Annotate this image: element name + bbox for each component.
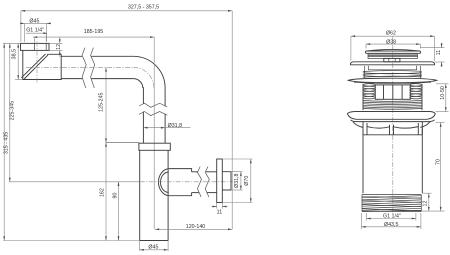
svg-text:38,5: 38,5 — [11, 49, 17, 59]
svg-text:10-50: 10-50 — [440, 86, 446, 100]
svg-text:11: 11 — [217, 209, 223, 215]
svg-text:12: 12 — [56, 44, 62, 50]
wall stub pipe — [222, 172, 231, 190]
dimension O31,8 vertical pipe — [143, 123, 190, 129]
svg-text:90: 90 — [113, 193, 119, 199]
dimension O31,8 stub — [231, 172, 243, 190]
dimension 12 thread height — [422, 193, 431, 211]
dimension G1 1/4 bottom thread — [367, 213, 416, 221]
upper thread section — [363, 71, 422, 78]
collar thread bore lines — [34, 43, 36, 50]
svg-text:185-195: 185-195 — [84, 29, 103, 35]
drain axis centerline — [392, 36, 394, 214]
dimension 11 cap height — [421, 43, 445, 68]
svg-text:120-140: 120-140 — [186, 224, 205, 230]
drain cap dome — [367, 49, 420, 51]
elbow vertical axis — [36, 42, 38, 83]
cap stem — [384, 58, 400, 61]
dimension O38 — [366, 39, 420, 48]
pipe bend outer arc — [133, 56, 165, 88]
wall elbow collar — [21, 43, 50, 50]
O62 top dish — [351, 62, 435, 65]
svg-text:G1 1/4": G1 1/4" — [383, 214, 401, 220]
svg-text:Ø45: Ø45 — [148, 244, 158, 250]
svg-text:Ø45: Ø45 — [29, 18, 39, 24]
dimension O62 — [351, 31, 435, 61]
svg-text:Ø38: Ø38 — [386, 39, 396, 45]
cap dome rim — [366, 51, 421, 53]
dimension 90 — [113, 182, 120, 241]
pipe bend inner arc — [133, 79, 142, 88]
svg-text:G1 1/4": G1 1/4" — [26, 28, 44, 34]
dimension G1 1/4 elbow thread — [26, 28, 48, 43]
dimension O45 cup — [140, 241, 168, 252]
wall flange disc — [217, 159, 223, 203]
svg-text:Ø62: Ø62 — [386, 31, 396, 37]
dimension O43,5 — [362, 213, 421, 229]
horizontal pipe axis — [26, 66, 133, 68]
svg-text:327,5 - 357,5: 327,5 - 357,5 — [128, 5, 159, 11]
elbow miter seam — [21, 54, 48, 80]
dimension 38,5 — [3, 43, 23, 79]
locknut dish — [348, 78, 437, 83]
lower flange plate — [347, 112, 435, 120]
pipe break symbol outlet pipe — [197, 167, 201, 198]
cup outlet bulge — [158, 169, 168, 196]
dimension 162 — [99, 143, 107, 241]
svg-text:225-345: 225-345 — [10, 101, 16, 120]
dimension 327,5-357,5 overall length — [21, 5, 232, 230]
overflow window — [375, 85, 410, 99]
dimension 70 body height — [421, 123, 444, 212]
dimension 185-195 — [33, 29, 154, 38]
cap plate bar 2 — [368, 56, 418, 58]
cap plate bar 1 — [368, 54, 418, 56]
outlet pipe walls — [192, 172, 217, 193]
svg-text:Ø43,5: Ø43,5 — [384, 222, 398, 228]
dimension O70 flange — [222, 159, 252, 203]
siphon cup collar — [139, 143, 170, 150]
dimension 11 flange thickness — [212, 203, 228, 216]
pipe break symbol horizontal pipe — [82, 48, 86, 88]
outlet pipe axis — [140, 181, 233, 183]
svg-text:12: 12 — [423, 201, 429, 207]
gasket line — [351, 120, 435, 122]
dimension 120-140 — [155, 224, 232, 230]
dimension 12 collar height — [49, 37, 63, 57]
svg-text:Ø70: Ø70 — [244, 176, 250, 186]
lugs and scallops — [363, 122, 422, 135]
svg-text:162: 162 — [99, 188, 105, 197]
dimension O45 elbow collar — [20, 18, 51, 42]
adjustable barrel with overflow window — [363, 84, 422, 110]
svg-text:Ø31,8: Ø31,8 — [168, 123, 182, 129]
svg-text:315 - 435: 315 - 435 — [3, 132, 9, 154]
bottom thread G1 1/4 — [362, 195, 421, 212]
pipe axis extension line vertical — [153, 37, 155, 229]
gasket skirt — [353, 122, 430, 128]
dimension 315-435 — [3, 43, 140, 240]
drain body — [363, 129, 422, 194]
dimension 10-50 — [436, 84, 449, 112]
vertical pipe walls — [143, 87, 165, 143]
outlet neck — [169, 169, 192, 196]
svg-text:70: 70 — [435, 159, 441, 165]
svg-text:11: 11 — [436, 50, 442, 56]
wall elbow body — [23, 50, 61, 79]
horizontal pipe walls — [61, 56, 133, 78]
svg-text:Ø31,8: Ø31,8 — [234, 174, 240, 188]
siphon cup body — [140, 150, 168, 240]
pipe bend centerline arc — [133, 67, 154, 88]
pipe break symbol vertical pipe — [139, 103, 167, 107]
svg-text:125-245: 125-245 — [99, 92, 105, 111]
dimension 125-245 — [99, 67, 139, 142]
upper neck — [365, 66, 421, 78]
dimension 225-345 — [9, 43, 140, 181]
extension line collar top — [106, 142, 139, 144]
